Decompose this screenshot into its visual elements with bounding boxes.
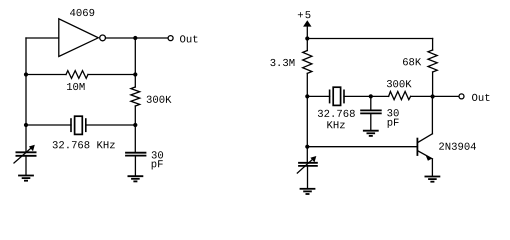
node crystal row left (right ckt) (305, 94, 309, 98)
svg-text:Out: Out (179, 34, 198, 46)
trimmer capacitor C4 (right) (297, 156, 317, 173)
node base row (305, 145, 309, 149)
wire left vertical (25, 38, 27, 152)
wire trimmer to ground (right) (307, 166, 309, 188)
terminal Out (right) (459, 94, 464, 99)
ground (left trimmer) (19, 175, 33, 177)
resistor R5 300K (right) (389, 92, 411, 100)
inverter bubble (100, 35, 106, 41)
terminal Out (left) (168, 36, 173, 41)
ground (right trimmer) (301, 188, 315, 190)
capacitor C3 30pF (right) (361, 110, 381, 113)
wire crystal row to crystal (307, 95, 329, 97)
node output junction (133, 36, 137, 40)
wire right branch upper (432, 39, 434, 51)
wire cap to ground (right) (370, 113, 372, 129)
svg-text:4069: 4069 (69, 8, 94, 20)
wire cap branch vertical (370, 96, 372, 110)
svg-text:+: + (297, 10, 303, 22)
svg-text:pF: pF (151, 159, 164, 171)
svg-text:68K: 68K (402, 57, 422, 69)
svg-text:3.3M: 3.3M (270, 58, 295, 70)
trimmer capacitor C1 (14, 145, 36, 163)
svg-text:32.768 KHz: 32.768 KHz (52, 140, 116, 152)
wire left branch upper (306, 39, 308, 51)
inverter U1 (59, 19, 99, 57)
resistor R2 300K (131, 87, 140, 106)
node 10M right (133, 72, 137, 76)
crystal Y2 32.768 KHz (330, 87, 344, 105)
wire 10M row (26, 74, 66, 76)
svg-text:300K: 300K (146, 95, 172, 107)
wire 3.3M to crystal row (306, 73, 308, 162)
capacitor C2 30pF (126, 153, 146, 156)
wire collector (431, 97, 433, 134)
wire inverter input (26, 37, 59, 39)
svg-text:KHz: KHz (326, 120, 345, 132)
svg-text:300K: 300K (386, 79, 412, 91)
wire crystal to cap node (344, 95, 389, 97)
svg-text:5: 5 (305, 10, 311, 22)
svg-text:pF: pF (387, 118, 400, 130)
wire emitter to ground (431, 159, 433, 176)
wire 300K to crystal row (134, 106, 136, 153)
transistor Q1 2N3904 (417, 134, 432, 161)
node crystal row right (133, 123, 137, 127)
node +5 rail (305, 36, 309, 40)
wire 300K to out node (411, 95, 433, 97)
node out (right) (431, 94, 435, 98)
power arrow +5 (303, 20, 311, 26)
resistor R4 68K (428, 50, 437, 72)
node 10M left (24, 72, 28, 76)
wire trimmer to ground (25, 156, 27, 175)
wire inverter output (106, 37, 169, 39)
ground (emitter) (425, 176, 439, 178)
wire 68K to out row (432, 72, 434, 97)
wire crystal right lead (86, 124, 136, 126)
wire crystal left lead (26, 124, 71, 126)
ground (right cap) (364, 130, 378, 132)
wire out stub (433, 95, 459, 97)
resistor R1 10M (66, 71, 88, 79)
wire right vertical upper (134, 38, 136, 87)
crystal Y1 32.768 KHz (71, 116, 86, 134)
wire cap to ground (134, 156, 136, 176)
node cap branch (369, 94, 373, 98)
svg-text:2N3904: 2N3904 (438, 142, 476, 154)
svg-text:10M: 10M (66, 82, 85, 94)
svg-text:32.768: 32.768 (317, 109, 355, 121)
svg-text:Out: Out (471, 93, 490, 105)
node crystal row left (24, 123, 28, 127)
resistor R3 3.3M (303, 51, 312, 74)
ground (left cap) (128, 175, 142, 177)
wire top rail (307, 38, 432, 40)
wire base row (307, 146, 417, 148)
